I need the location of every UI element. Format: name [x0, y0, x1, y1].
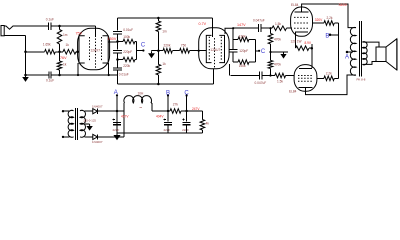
svg-text:1k: 1k	[66, 43, 70, 47]
label 0.01uF cathode V1	[119, 72, 129, 76]
svg-text:C: C	[184, 90, 189, 96]
label 0.01uF coupling V1	[123, 28, 133, 32]
label 0.1uF cathode	[46, 79, 54, 83]
wire C tap stage2	[255, 50, 259, 52]
capacitor 0.1uF input	[48, 23, 50, 30]
node C psu	[185, 94, 187, 112]
wire 1k to tube V1	[76, 51, 79, 53]
node B psu	[167, 94, 169, 112]
wire top cap to stopper	[261, 27, 272, 29]
svg-text:EL84: EL84	[291, 3, 299, 7]
svg-text:10H: 10H	[138, 92, 145, 96]
resistor 27k	[168, 109, 181, 114]
svg-text:220pF: 220pF	[123, 50, 132, 54]
tube V4 EL84 envelope	[294, 65, 317, 92]
resistor 100k load V1	[118, 39, 136, 44]
tube V2 plate lead	[225, 28, 233, 34]
wire A column	[116, 95, 118, 133]
wire V1 cathode column	[117, 53, 119, 68]
capacitor 0.047uF bottom	[260, 72, 262, 80]
wire T1 center tap	[85, 123, 90, 125]
label 22uF #3	[182, 128, 189, 132]
node stage2 gridline	[157, 49, 160, 52]
resistor 130k lower	[233, 60, 255, 65]
tube V4 cathode bar	[299, 68, 312, 70]
wire V1 plate column	[117, 34, 119, 50]
transformer T1 core	[76, 108, 78, 140]
wire rail into V2 grid	[211, 18, 213, 37]
svg-text:8.9V: 8.9V	[305, 41, 312, 45]
wire V2 column lower	[232, 52, 234, 62]
label C stage1	[141, 43, 146, 49]
wire center tap A	[347, 51, 353, 53]
label 0.047uF bottom	[255, 81, 267, 85]
capacitor 22uF #1	[113, 118, 121, 124]
svg-text:1k: 1k	[162, 62, 166, 66]
label 0.7V V2	[199, 22, 207, 26]
label 1k cathode V2	[162, 62, 166, 66]
svg-text:4k: 4k	[206, 121, 210, 125]
wire 130k join	[254, 39, 256, 62]
wire jack tip to input cap	[15, 25, 48, 27]
svg-text:437V: 437V	[121, 114, 129, 118]
capacitor 120pF V2	[229, 50, 237, 52]
node C stage2	[258, 50, 260, 52]
wire V2 cathode line	[230, 75, 259, 77]
svg-text:0.1uF: 0.1uF	[46, 18, 54, 22]
resistor 470k lower	[268, 52, 273, 76]
tube V1 left grid dashed	[89, 37, 91, 62]
svg-text:120 1W: 120 1W	[291, 39, 302, 43]
node grid bottom EL84	[269, 74, 271, 76]
svg-text:0.047uF: 0.047uF	[255, 81, 267, 85]
node D1 junction	[116, 110, 119, 113]
wire screen top to B bus	[334, 23, 338, 78]
wire bypass cap to junction	[51, 74, 59, 76]
label 2.2k top	[327, 16, 333, 20]
svg-text:C: C	[141, 43, 146, 49]
label 22uF #2	[164, 128, 171, 132]
node B amp	[329, 34, 332, 37]
node V1 plate	[116, 40, 119, 43]
label 1.5k bottom	[277, 80, 283, 84]
wire input node to tube V1 grid entry	[60, 26, 96, 37]
svg-text:1k: 1k	[63, 63, 67, 67]
node C stage1	[142, 49, 144, 51]
svg-text:0.1uF: 0.1uF	[46, 79, 54, 83]
transformer T2 secondary coil	[362, 42, 367, 65]
label 0.047uF top	[253, 19, 265, 23]
tube V1 cathode left lead	[77, 63, 79, 75]
label 12AU7	[210, 48, 220, 52]
label 220k V2	[164, 43, 171, 47]
label 8.9V	[305, 41, 312, 45]
resistor 1.65k	[45, 49, 56, 54]
label 1k stopper V1	[66, 43, 70, 47]
label 4k bleeder	[206, 121, 210, 125]
node V1 grid entry dot	[76, 51, 79, 54]
tube V2 cathode lead	[229, 64, 231, 76]
wire mid bottom rail	[118, 75, 214, 84]
wire cap3 lower	[186, 125, 188, 133]
wire ground rail psu	[117, 132, 202, 134]
svg-text:12AU7: 12AU7	[210, 48, 220, 52]
resistor 2.2k screen top	[324, 21, 334, 26]
svg-text:1m: 1m	[162, 30, 167, 34]
label 12AX7	[91, 49, 101, 53]
wire stopper to V3	[287, 27, 292, 29]
tube V4 plate wire	[306, 75, 357, 95]
label B psu	[166, 90, 170, 96]
node sleeve-gridline junction	[24, 51, 27, 54]
svg-text:0.7V: 0.7V	[199, 22, 207, 26]
svg-text:404V: 404V	[156, 114, 164, 118]
node input ground junction	[24, 74, 27, 77]
wire ground col to 1.65k	[26, 51, 45, 53]
svg-text:1m: 1m	[63, 33, 68, 37]
tube V3 plate bar	[295, 7, 309, 12]
svg-text:0.047uF: 0.047uF	[253, 19, 265, 23]
svg-text:100k: 100k	[123, 35, 130, 39]
tube V3 cathode lead	[295, 32, 297, 48]
wire cathode bus left	[26, 74, 49, 76]
wire secondary bottom	[362, 62, 376, 65]
capacitor 0.047uF top	[259, 24, 261, 32]
svg-text:EL84: EL84	[289, 89, 297, 93]
wire V1 loads join	[135, 42, 136, 60]
svg-text:B: B	[166, 90, 170, 96]
tube V1 cathode right lead	[108, 63, 110, 75]
label 320V	[315, 18, 323, 22]
wire C column	[186, 96, 188, 122]
label 1M V1	[63, 33, 68, 37]
capacitor 0.01uF coupling V1	[113, 32, 122, 34]
label 130k upper	[239, 34, 246, 38]
speaker	[376, 39, 397, 70]
node grid top EL84	[269, 27, 271, 29]
svg-text:220k: 220k	[123, 64, 130, 68]
svg-text:470k: 470k	[274, 37, 281, 41]
svg-text:147V: 147V	[237, 23, 246, 27]
label 470k lower	[274, 63, 281, 67]
wire B stub	[330, 34, 339, 36]
node cathodes join	[311, 47, 314, 50]
wire V2 plate node	[233, 27, 258, 29]
node cathode bus junction	[58, 74, 61, 77]
label 27k	[173, 102, 179, 106]
wire V2 left cathode drop	[213, 69, 215, 84]
tube V3 grid rows dashed	[294, 17, 309, 28]
resistor 2.2k screen bottom	[324, 76, 339, 81]
svg-text:125-0-125: 125-0-125	[83, 118, 96, 122]
svg-text:B: B	[325, 33, 329, 39]
label EL84 bottom	[289, 89, 297, 93]
label 120 1W	[291, 39, 302, 43]
node cathode V1 left drop	[77, 74, 110, 76]
node rail grid leak tap	[157, 17, 160, 20]
label A psu	[114, 90, 118, 96]
wire secondary top	[362, 42, 379, 47]
label 437V	[121, 114, 129, 118]
tube V4 grid rows dashed	[298, 76, 313, 82]
svg-text:0.01uF: 0.01uF	[119, 72, 129, 76]
capacitor 0.1uF cathode bypass	[49, 72, 51, 79]
tube V3 EL84 envelope	[291, 7, 313, 36]
svg-text:247V: 247V	[192, 107, 200, 111]
wire D2 riser	[97, 111, 124, 137]
label C stage2	[261, 49, 266, 55]
label 220k V1	[123, 64, 130, 68]
label 1.65k	[43, 43, 51, 47]
wire D1 to rail	[97, 110, 124, 112]
svg-text:12AX7: 12AX7	[91, 49, 101, 53]
resistor 1k cathode V1	[57, 52, 62, 75]
wire stopper2 to V4	[286, 75, 295, 77]
wire T1 primary bottom	[62, 136, 70, 138]
transformer T2 primary coil	[350, 27, 356, 75]
label 0.1uF input	[46, 18, 54, 22]
label EL84 top	[291, 3, 299, 7]
label 125-0-125	[83, 118, 96, 122]
node V2 cathode res bottom	[157, 83, 160, 86]
tube V2 center grid dashed	[214, 38, 216, 68]
label 75V V1	[76, 31, 83, 35]
label 404V	[156, 114, 164, 118]
resistor 120 cathode	[296, 46, 312, 51]
svg-text:0.01uF: 0.01uF	[123, 28, 133, 32]
label 147V V2	[237, 23, 246, 27]
label 220pF V1	[123, 50, 132, 54]
label 470k upper	[274, 37, 281, 41]
wire cathode bus right	[60, 74, 118, 76]
ground center tap	[86, 124, 92, 131]
wire rail rise	[123, 103, 125, 111]
diode D1 1N4007	[93, 109, 98, 114]
resistor 1k grid stopper V1	[55, 49, 76, 54]
label 1N4007 D1	[92, 104, 103, 108]
label A amp	[345, 54, 349, 60]
svg-text:27k: 27k	[173, 102, 179, 106]
wire gnd stub grid leaks	[271, 51, 289, 53]
tube V2 right cathode bracket	[219, 35, 224, 62]
label PK 8-8	[357, 77, 366, 81]
tube V1 center grid dashed	[95, 39, 97, 70]
resistor 220k V2	[158, 48, 172, 53]
svg-text:A: A	[114, 90, 118, 96]
svg-text:22uF: 22uF	[113, 128, 120, 132]
wire cathode bus V3V4	[311, 44, 313, 68]
tube V2 right grid dashed	[220, 37, 222, 62]
node V1 input junction	[58, 25, 61, 28]
resistor 1.5k stopper top	[272, 26, 287, 31]
label 1k cathode V1	[63, 63, 67, 67]
svg-text:120pF: 120pF	[239, 49, 248, 53]
tube V3 plate wire	[302, 4, 356, 28]
wire T1 primary top	[62, 110, 70, 112]
tube V1 right cathode bracket	[103, 36, 109, 63]
label 120pF V2	[239, 49, 248, 53]
label 247V	[192, 107, 200, 111]
svg-text:PK 8-8: PK 8-8	[357, 77, 366, 81]
label 1.5k top	[275, 22, 281, 26]
resistor 130k upper	[233, 37, 255, 42]
diode D2 1N4007	[93, 134, 98, 139]
label choke dash	[140, 106, 143, 108]
tube V3 screen wire	[313, 22, 324, 24]
label 100k V1	[123, 35, 130, 39]
node V1 cathode col	[116, 58, 119, 61]
label 1N4007 D2	[92, 140, 103, 144]
tube V1 left cathode bracket	[79, 36, 85, 63]
wire B column	[167, 96, 169, 122]
svg-text:1.65k: 1.65k	[43, 43, 51, 47]
resistor 1k cathode V2	[156, 51, 161, 84]
label 76V	[60, 56, 67, 60]
ground stage2	[148, 51, 155, 58]
wire col to cathode bus	[117, 70, 119, 75]
inductor 10H choke	[124, 96, 152, 103]
tube V4 screen wire	[317, 77, 324, 79]
svg-text:130k: 130k	[239, 34, 246, 38]
capacitor 22uF #2	[164, 118, 172, 124]
tube V2 12AU7 envelope	[199, 28, 229, 69]
svg-text:2.2k: 2.2k	[327, 16, 333, 20]
wire choke fall	[151, 103, 168, 111]
svg-text:130k: 130k	[239, 64, 246, 68]
resistor 1M grid leak V1	[57, 26, 62, 52]
resistor 1M grid leak V2	[156, 18, 161, 51]
label 130k lower	[239, 64, 246, 68]
resistor 4k bleeder	[200, 120, 205, 134]
wire 750 to tube V2	[190, 50, 207, 52]
transformer T1 primary coil	[68, 110, 73, 137]
svg-text:22uF: 22uF	[182, 128, 189, 132]
label 10H	[138, 92, 145, 96]
svg-text:22uF: 22uF	[164, 128, 171, 132]
tube V2 left cathode bracket	[206, 35, 211, 62]
label 340V	[339, 3, 348, 7]
ground EL84 grid leaks	[280, 52, 286, 59]
resistor 470k upper	[268, 28, 273, 52]
tube V1 12AX7 envelope	[78, 28, 110, 69]
wire V1 coupling riser	[117, 18, 119, 31]
svg-text:2.2k: 2.2k	[326, 71, 332, 75]
resistor 750 V2	[172, 48, 189, 53]
wire T1 secondary top	[85, 110, 93, 112]
wire C rail right	[187, 111, 203, 120]
svg-text:470k: 470k	[274, 63, 281, 67]
wire signal rail V1-V2	[118, 17, 213, 19]
svg-text:76V: 76V	[60, 56, 67, 60]
wire T1 secondary bottom	[85, 136, 93, 138]
wire bottom cap to node	[262, 75, 274, 77]
node grid leak mid	[269, 51, 271, 53]
svg-text:340V: 340V	[339, 3, 348, 7]
wire cap2 lower	[167, 125, 169, 133]
svg-text:75V: 75V	[76, 31, 83, 35]
resistor 1.5k stopper bottom	[275, 73, 286, 78]
tube V4 plate bar	[299, 88, 313, 92]
tube V2 left grid dashed	[208, 37, 210, 62]
wire stage2 gnd stub	[152, 50, 159, 53]
label 150V V1	[108, 37, 117, 41]
capacitor 220pF V1	[113, 51, 122, 53]
wire 27k to C	[181, 110, 187, 112]
ground psu	[113, 133, 120, 140]
svg-text:1.5k: 1.5k	[277, 80, 283, 84]
tube V1 plate lead right	[108, 41, 117, 43]
capacitor 0.01uF cathode V1	[113, 68, 122, 70]
label 750 V2	[181, 43, 187, 47]
wire input cap to grid node	[51, 25, 60, 27]
tube V1 right grid dashed	[101, 37, 103, 62]
svg-text:C: C	[261, 49, 266, 55]
resistor 220k load V1	[118, 57, 136, 62]
transformer T1 secondary coil	[80, 110, 85, 137]
tube V3 cathode bar	[295, 31, 308, 33]
input jack J1	[1, 26, 15, 36]
svg-text:750: 750	[181, 43, 187, 47]
svg-text:220k: 220k	[164, 43, 171, 47]
wire C tap stage1	[136, 50, 143, 52]
label C psu	[184, 90, 189, 96]
wire V2 column upper	[232, 28, 234, 49]
node A psu	[116, 94, 118, 96]
node V1 divider junction	[58, 51, 61, 54]
svg-text:A: A	[345, 54, 349, 60]
ground input	[22, 75, 29, 82]
label B amp	[325, 33, 329, 39]
svg-text:1N4007: 1N4007	[92, 140, 103, 144]
wire jack sleeve	[4, 36, 25, 76]
label 22uF #1	[113, 128, 120, 132]
svg-text:150V: 150V	[108, 37, 117, 41]
svg-text:1.5k: 1.5k	[275, 22, 281, 26]
label 2.2k bottom	[326, 71, 332, 75]
svg-text:1N4007: 1N4007	[92, 104, 103, 108]
node V2 plate	[232, 27, 234, 29]
capacitor 22uF #3	[182, 118, 190, 124]
transformer T2 core	[359, 21, 361, 77]
node A amp	[346, 51, 349, 54]
svg-text:320V: 320V	[315, 18, 323, 22]
label 1M V2	[162, 30, 167, 34]
